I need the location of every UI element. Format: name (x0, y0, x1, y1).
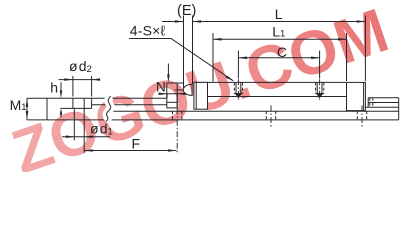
shaft axis centerline stub (175, 89, 184, 91)
svg-text:N: N (156, 80, 166, 95)
tapped hole 2 (S) in shaft (316, 79, 324, 100)
svg-text:M1: M1 (10, 97, 27, 113)
counterbore floor (60, 107, 91, 109)
bottom bar top edge (111, 110, 399, 112)
end plate inner line (167, 101, 177, 103)
stub hidden lines (370, 98, 373, 108)
left clamp block A (194, 82, 208, 109)
dome end cap (183, 84, 192, 95)
thin strip bottom edge (92, 104, 167, 106)
break squiggle (106, 96, 111, 121)
rail hidden hole 1 (173, 108, 182, 153)
svg-text:F: F (132, 136, 141, 152)
through hole d1 right wall + extension (83, 98, 85, 153)
arrow pointing at end plate top (167, 64, 169, 75)
counterbore d2 left wall (72, 98, 74, 108)
dimension C (238, 51, 319, 79)
right clamp block B (347, 82, 366, 110)
stub shaft top (368, 97, 399, 99)
stub shaft mid line (368, 102, 399, 104)
rail left-end block outline (47, 98, 167, 120)
right end face (398, 98, 400, 120)
rail bottom edge (47, 119, 399, 121)
dimension (E) (162, 16, 365, 89)
svg-text:ød2: ød2 (69, 58, 92, 75)
counterbore d2 right wall (91, 98, 93, 108)
through hole d1 left wall + extension (73, 108, 75, 140)
stub shaft bottom (365, 106, 398, 108)
left end plate (167, 83, 177, 108)
svg-text:(E): (E) (177, 3, 196, 19)
shaft body top edge (194, 81, 347, 83)
rail hidden hole 3 (357, 106, 366, 129)
svg-text:L1: L1 (272, 23, 285, 39)
svg-text:C: C (277, 44, 287, 60)
stub shaft step (367, 98, 369, 108)
dimension L (364, 16, 366, 82)
dimension L1 (213, 33, 347, 82)
shaft body bottom edge (208, 96, 347, 98)
end plate top edge to dome (177, 82, 183, 84)
tapped hole 1 (S) in shaft (234, 79, 242, 100)
svg-text:4-S×ℓ: 4-S×ℓ (130, 23, 166, 39)
svg-text:h: h (50, 80, 58, 96)
block A inner edge (195, 82, 197, 109)
svg-text:L: L (275, 6, 283, 22)
rail hidden hole 2 (266, 106, 275, 129)
block B inner edge (363, 82, 365, 110)
